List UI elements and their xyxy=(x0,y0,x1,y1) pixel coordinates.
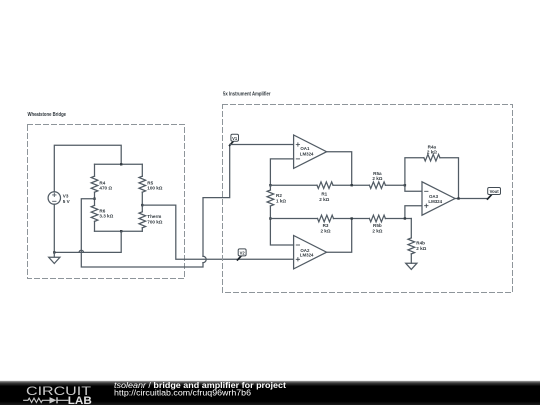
node bridge top xyxy=(120,163,122,165)
node R5a-R4a junction xyxy=(404,184,406,186)
node R2 bottom xyxy=(269,217,271,219)
logo schematic glyph xyxy=(24,398,68,402)
resistor Therm xyxy=(139,205,146,231)
node OA3 out xyxy=(457,197,459,199)
wire R5a to OA3 minus xyxy=(385,185,422,191)
logo diode glyph xyxy=(50,397,57,403)
ground symbol R4b xyxy=(406,263,417,269)
svg-text:1 kΩ: 1 kΩ xyxy=(276,198,286,203)
resistor R6 xyxy=(91,199,98,232)
wire R1 to OA1out node xyxy=(333,184,369,186)
node R4-R6 junction xyxy=(93,198,95,200)
wire V1 to OA1 plus xyxy=(230,144,294,146)
node flag V1 xyxy=(230,134,239,145)
resistor R4 xyxy=(91,164,98,198)
resistor R5b xyxy=(369,215,385,222)
svg-text:LM324: LM324 xyxy=(428,199,442,204)
footer bar xyxy=(0,381,540,405)
wire hop over V1 wire xyxy=(79,250,83,252)
op-amp OA2 xyxy=(294,236,327,269)
node bridge bottom xyxy=(120,230,122,232)
svg-text:2 kΩ: 2 kΩ xyxy=(416,246,426,251)
svg-text:LM324: LM324 xyxy=(300,152,314,157)
resistor R5 xyxy=(139,164,146,205)
svg-text:100 kΩ: 100 kΩ xyxy=(147,185,162,190)
wire V3 bottom xyxy=(53,204,55,252)
svg-text:700 kΩ: 700 kΩ xyxy=(147,219,162,224)
wire V3 top to bridge top xyxy=(54,145,121,192)
voltage source V3 xyxy=(48,192,60,204)
op-amp OA1 xyxy=(294,135,327,168)
wire V1 tap from bridge xyxy=(81,145,229,268)
svg-text:V2: V2 xyxy=(240,251,246,256)
resistor R5a xyxy=(369,182,385,189)
ground symbol bridge xyxy=(49,252,60,263)
wire OA1 output xyxy=(327,152,352,186)
wire R4a feedback left leg xyxy=(405,158,424,186)
op-amp OA3 xyxy=(422,182,455,215)
resistor R4b xyxy=(408,219,415,264)
svg-text:Vout: Vout xyxy=(490,189,500,194)
svg-text:2 kΩ: 2 kΩ xyxy=(372,228,382,233)
svg-text:2 kΩ: 2 kΩ xyxy=(372,176,382,181)
wire R4a to output node xyxy=(440,158,459,199)
svg-text:5 V: 5 V xyxy=(63,199,71,204)
node R5-Therm junction xyxy=(141,204,143,206)
node R5b-R4b junction xyxy=(404,217,406,219)
svg-text:2 kΩ: 2 kΩ xyxy=(427,150,437,155)
wire OA2 output xyxy=(327,219,352,253)
svg-text:LAB: LAB xyxy=(68,395,92,405)
svg-text:R1: R1 xyxy=(321,192,327,197)
wire OA1 minus loop xyxy=(270,159,293,185)
svg-text:V1: V1 xyxy=(232,136,238,141)
svg-text:2 kΩ: 2 kΩ xyxy=(319,197,329,202)
node flag Vout xyxy=(488,188,501,200)
wire R3 to OA2out node xyxy=(334,218,370,220)
node flag V2 xyxy=(238,249,247,260)
wire hop V1 over V2 xyxy=(203,256,206,262)
svg-text:2 kΩ: 2 kΩ xyxy=(320,228,330,233)
resistor R1 xyxy=(317,182,333,189)
dashed box 5x Instrument Amplifier xyxy=(223,105,513,293)
node R2 top xyxy=(269,184,271,186)
resistor R4a xyxy=(424,154,440,161)
wire OA2 minus loop xyxy=(270,219,293,246)
svg-text:R2: R2 xyxy=(276,193,282,198)
svg-text:Wheatstone Bridge: Wheatstone Bridge xyxy=(28,112,67,118)
svg-text:3.3 kΩ: 3.3 kΩ xyxy=(99,214,113,219)
wire bridge bottom rail xyxy=(95,230,143,232)
wire OA3 output to Vout xyxy=(455,198,487,200)
wire R3 rail xyxy=(270,218,317,220)
svg-text:OA1: OA1 xyxy=(300,146,310,151)
node ground junction xyxy=(53,251,55,253)
wire bridge top rail xyxy=(95,163,143,165)
wire V2 tap from bridge xyxy=(142,205,293,259)
svg-text:http://circuitlab.com/cfruq96w: http://circuitlab.com/cfruq96wrh7b6 xyxy=(114,389,252,398)
wire bridge bottom to ground xyxy=(54,231,121,252)
wire R1 rail xyxy=(270,184,317,186)
svg-text:470 Ω: 470 Ω xyxy=(99,185,112,190)
svg-text:LM324: LM324 xyxy=(300,252,314,257)
dashed box Wheatstone Bridge xyxy=(28,125,185,279)
wire R5b to OA3 plus xyxy=(385,206,422,219)
svg-text:5x Instrument Amplifier: 5x Instrument Amplifier xyxy=(223,91,271,97)
resistor R2 xyxy=(267,185,274,218)
resistor R3 xyxy=(318,215,334,222)
node OA2 out xyxy=(351,217,353,219)
svg-text:V3: V3 xyxy=(63,194,69,199)
node OA1 out xyxy=(351,184,353,186)
